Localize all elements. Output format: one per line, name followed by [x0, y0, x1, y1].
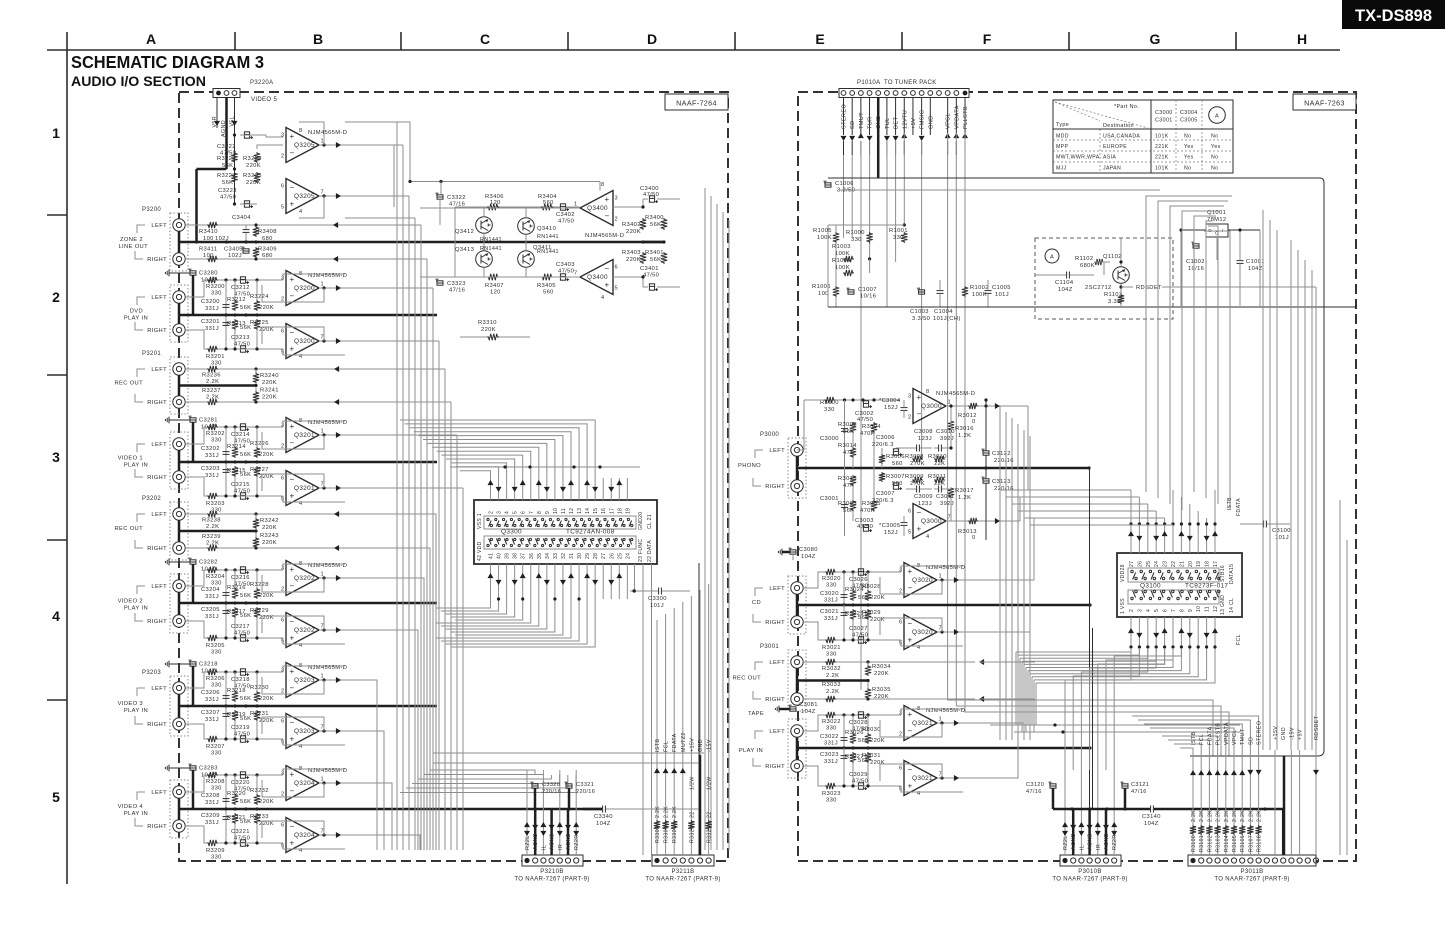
resistor R3243 [255, 533, 257, 537]
svg-text:R3106: R3106 [1240, 835, 1246, 852]
svg-text:56K: 56K [240, 696, 251, 702]
svg-text:Q3205: Q3205 [294, 142, 315, 149]
capacitor C3221 [240, 840, 245, 846]
svg-text:R3022: R3022 [822, 719, 841, 725]
svg-text:2.2K: 2.2K [206, 524, 219, 530]
svg-text:6: 6 [899, 620, 902, 626]
capacitor C3201 [225, 315, 227, 349]
svg-text:4: 4 [505, 511, 511, 514]
resistor R3002 [850, 422, 856, 433]
svg-text:13 GND: 13 GND [1220, 595, 1226, 615]
op-amp Q32032 [286, 714, 319, 749]
IC Q3100 TC9273F-017 body [1117, 553, 1242, 617]
svg-text:R3004: R3004 [862, 424, 881, 430]
svg-text:331J: 331J [824, 616, 838, 622]
wire feedback 2 [262, 821, 324, 838]
svg-text:No: No [1184, 134, 1191, 140]
svg-text:6: 6 [1163, 609, 1169, 612]
wire ground bus [179, 808, 602, 811]
svg-text:TUL: TUL [885, 117, 891, 129]
svg-text:C3404: C3404 [232, 215, 251, 221]
svg-text:−: − [908, 727, 913, 736]
wire rec [803, 661, 975, 663]
svg-text:2: 2 [615, 217, 618, 223]
svg-text:17: 17 [609, 508, 615, 514]
wire rec ground [179, 384, 256, 387]
svg-text:2.2K: 2.2K [655, 806, 661, 818]
svg-text:R3014: R3014 [838, 443, 857, 449]
svg-text:47/50: 47/50 [234, 489, 250, 495]
svg-text:RIGHT: RIGHT [147, 722, 167, 728]
op-amp Q32002 [286, 324, 319, 359]
capacitor C3217 [240, 635, 245, 641]
svg-text:LEFT: LEFT [151, 223, 167, 229]
svg-text:Yes: Yes [1211, 144, 1221, 150]
wire out [319, 195, 345, 197]
op-amp Q3000a [913, 389, 946, 424]
svg-text:6: 6 [281, 823, 284, 829]
svg-text:1/2W: 1/2W [689, 776, 695, 790]
resistor R3206 [207, 669, 218, 675]
wire gnd heavy [1283, 756, 1286, 855]
svg-text:78M12: 78M12 [1207, 217, 1226, 223]
wire cd R [803, 766, 825, 786]
wire rec ground [179, 530, 256, 533]
connector jack group [170, 432, 188, 489]
svg-text:10: 10 [553, 508, 559, 514]
wire output 1 [319, 782, 345, 784]
wire ground bus [179, 602, 437, 605]
wire feedback 2 [262, 717, 324, 734]
svg-text:+: + [908, 710, 913, 719]
svg-text:25: 25 [617, 553, 623, 559]
wire q3400 bot [613, 277, 643, 287]
wire fanout P3210B [430, 770, 535, 775]
svg-text:IL: IL [1079, 845, 1085, 850]
resistor R3226 [256, 427, 258, 447]
svg-text:+: + [290, 735, 295, 744]
capacitor C3207 [225, 706, 227, 739]
svg-text:RIGHT: RIGHT [765, 484, 785, 490]
svg-text:PLAY IN: PLAY IN [124, 708, 148, 714]
resistor R3004 [871, 422, 877, 433]
svg-text:22 DATA: 22 DATA [647, 540, 653, 562]
svg-text:FDATA: FDATA [1207, 726, 1213, 745]
resistor R3209 [207, 840, 218, 846]
svg-text:H: H [1297, 31, 1307, 47]
resistor R3021 [825, 637, 836, 643]
resistor R3224 [256, 280, 258, 300]
svg-text:R1005: R1005 [813, 228, 832, 234]
svg-text:C3300: C3300 [648, 596, 667, 602]
svg-text:220K: 220K [870, 738, 885, 744]
svg-text:+: + [290, 132, 295, 141]
svg-text:REC OUT: REC OUT [114, 526, 143, 532]
svg-text:330: 330 [211, 438, 222, 444]
resistor R3232 [256, 775, 258, 794]
op-amp Q3205b [286, 179, 319, 214]
capacitor C3340 [602, 806, 604, 813]
svg-text:330: 330 [851, 237, 862, 243]
svg-text:TO TUNER PACK: TO TUNER PACK [884, 80, 937, 86]
svg-text:28: 28 [593, 553, 599, 559]
wire right rails 2 [1339, 500, 1341, 855]
capacitor C3028 [858, 712, 863, 718]
resistor R3034 [867, 662, 869, 665]
svg-text:No: No [1211, 134, 1218, 140]
wire row bot [455, 276, 487, 278]
svg-text:Q3100: Q3100 [1140, 583, 1161, 590]
svg-text:220/16: 220/16 [542, 789, 561, 795]
svg-text:22: 22 [689, 812, 695, 818]
svg-text:470K: 470K [860, 431, 875, 437]
wire ground bus [179, 705, 437, 708]
svg-text:R3402: R3402 [622, 222, 641, 228]
connector TAPE [788, 719, 806, 778]
svg-text:220K: 220K [874, 694, 889, 700]
svg-text:C3121: C3121 [1131, 782, 1149, 788]
wire ground bus [179, 461, 437, 464]
svg-text:+: + [290, 275, 295, 284]
svg-text:220/6.3: 220/6.3 [872, 498, 894, 504]
wire zone R [185, 258, 420, 260]
svg-text:22K: 22K [934, 461, 945, 467]
svg-text:C3008: C3008 [914, 429, 933, 435]
resistor R3212 [234, 280, 236, 300]
capacitor C3300 [658, 588, 660, 595]
svg-text:TO NAAR-7267 (PART-9): TO NAAR-7267 (PART-9) [1052, 877, 1127, 883]
svg-text:−: − [290, 617, 295, 626]
svg-text:104Z: 104Z [1058, 287, 1073, 293]
svg-text:TUR: TUR [868, 116, 874, 129]
svg-text:C1003: C1003 [910, 309, 929, 315]
svg-text:392J: 392J [940, 501, 954, 507]
svg-text:R3222: R3222 [217, 156, 236, 162]
wire fb [880, 764, 942, 781]
svg-text:+: + [917, 525, 922, 534]
svg-text:31: 31 [569, 553, 575, 559]
wire fb top [283, 274, 345, 280]
wire q3205 to q3400 [345, 122, 410, 182]
wire reg rail [1259, 230, 1261, 307]
svg-text:2.2K: 2.2K [206, 395, 219, 401]
svg-text:R3224: R3224 [250, 294, 269, 300]
svg-text:VIDEO 5: VIDEO 5 [251, 97, 277, 103]
svg-text:RIGHT: RIGHT [147, 824, 167, 830]
label box NAAF-7263 [1293, 94, 1356, 110]
model label box TX-DS898 [1342, 0, 1445, 29]
svg-text:C3100: C3100 [1272, 528, 1291, 534]
svg-text:330: 330 [211, 855, 222, 861]
svg-text:+: + [290, 492, 295, 501]
svg-text:1.2K: 1.2K [958, 495, 971, 501]
svg-text:104Z: 104Z [1144, 821, 1159, 827]
wire fb top [283, 421, 345, 427]
svg-text:13: 13 [577, 508, 583, 514]
wire [835, 225, 837, 232]
wire [835, 399, 900, 401]
wire corner bend [1190, 750, 1324, 756]
svg-text:560: 560 [892, 461, 903, 467]
svg-text:C3323: C3323 [447, 281, 466, 287]
svg-text:C3216: C3216 [231, 575, 250, 581]
svg-text:24: 24 [625, 553, 631, 559]
svg-text:2.2K: 2.2K [1207, 810, 1213, 822]
svg-text:TC9273F-017: TC9273F-017 [1185, 583, 1228, 590]
capacitor C1005 [985, 290, 992, 292]
svg-text:10/16: 10/16 [860, 294, 876, 300]
svg-text:4: 4 [601, 295, 604, 301]
wire ground bus [797, 747, 1090, 750]
svg-text:2: 2 [281, 154, 284, 160]
svg-text:Q3201: Q3201 [294, 485, 315, 492]
arrow [334, 545, 339, 551]
wire right input [185, 330, 207, 349]
svg-text:REC OUT: REC OUT [732, 676, 761, 682]
svg-text:R3108: R3108 [1257, 835, 1263, 852]
svg-text:331J: 331J [205, 594, 219, 600]
wire ground stub [192, 422, 195, 462]
svg-text:C3340: C3340 [594, 814, 613, 820]
node A [1045, 249, 1059, 263]
capacitor C3322 [437, 195, 443, 199]
wire cd out hooks [963, 518, 1034, 580]
junction [224, 670, 227, 673]
svg-text:331J: 331J [824, 759, 838, 765]
svg-text:PLAY IN: PLAY IN [124, 606, 148, 612]
svg-text:2: 2 [52, 289, 60, 305]
junction [233, 704, 236, 707]
svg-text:5: 5 [1154, 609, 1160, 612]
svg-text:P3211B: P3211B [671, 869, 694, 875]
svg-text:C3207: C3207 [201, 710, 220, 716]
svg-text:P3010B: P3010B [1078, 869, 1101, 875]
resistor R3237 [207, 399, 218, 405]
svg-text:C3005: C3005 [1180, 118, 1198, 124]
svg-text:220K: 220K [262, 540, 277, 546]
svg-text:17: 17 [1213, 561, 1219, 567]
svg-text:104Z: 104Z [1248, 266, 1263, 272]
row tick [47, 539, 67, 541]
capacitor C3222 [244, 132, 249, 138]
svg-text:C3320: C3320 [542, 782, 560, 788]
svg-text:560: 560 [892, 481, 903, 487]
svg-text:330: 330 [211, 786, 222, 792]
svg-text:19: 19 [1196, 561, 1202, 567]
resistor R3221 [232, 813, 238, 824]
svg-text:P3201: P3201 [142, 351, 161, 357]
svg-text:120: 120 [490, 200, 501, 206]
svg-text:+15V: +15V [689, 738, 695, 752]
svg-text:101K: 101K [1155, 165, 1169, 171]
svg-text:−: − [290, 822, 295, 831]
svg-text:C3028: C3028 [849, 720, 868, 726]
svg-text:REC OUT: REC OUT [114, 381, 143, 387]
capacitor C1006 [825, 183, 831, 187]
svg-text:Q3400: Q3400 [587, 274, 608, 281]
svg-text:6: 6 [281, 476, 284, 482]
svg-text:220/16: 220/16 [994, 458, 1014, 464]
capacitor C3022 [843, 715, 845, 748]
resistor R3200 [207, 277, 218, 283]
op-amp Q30201 [904, 563, 937, 598]
svg-text:R3409: R3409 [258, 247, 277, 253]
svg-text:Q3204: Q3204 [294, 780, 315, 787]
svg-text:220K: 220K [481, 327, 496, 333]
wire AGND [225, 97, 228, 169]
wire rec mid ground [797, 679, 868, 682]
svg-text:680K: 680K [1080, 263, 1095, 269]
svg-text:JAPAN: JAPAN [1103, 165, 1121, 171]
wires Q3300 bottom pins [490, 564, 492, 599]
svg-text:PLAY IN: PLAY IN [124, 463, 148, 469]
connector P3220A [213, 89, 240, 98]
capacitor C3321 [566, 784, 572, 788]
wire rb h1 [990, 724, 1240, 726]
svg-text:35: 35 [537, 553, 543, 559]
svg-text:23 FUNC: 23 FUNC [638, 539, 644, 562]
svg-text:AGND: AGND [1071, 833, 1077, 850]
svg-text:MPP: MPP [1056, 144, 1068, 150]
wire rec right [185, 401, 207, 403]
connector jack group [170, 574, 188, 633]
resistor R3025 [850, 609, 856, 620]
svg-text:P3210B: P3210B [540, 869, 563, 875]
svg-text:7: 7 [948, 515, 951, 521]
svg-text:220/16: 220/16 [994, 486, 1014, 492]
svg-text:+: + [908, 636, 913, 645]
svg-text:C1002: C1002 [1186, 259, 1205, 265]
svg-text:100: 100 [203, 253, 214, 259]
svg-text:R3209: R3209 [206, 848, 225, 854]
svg-text:RIGHT: RIGHT [765, 697, 785, 703]
resistor R3402 [640, 218, 646, 230]
capacitor C3122 [983, 451, 989, 455]
svg-text:R3030: R3030 [862, 727, 881, 733]
wire ground stub [192, 770, 195, 809]
row tick [47, 374, 67, 376]
connector P3010B [1060, 855, 1121, 866]
column tick [567, 32, 569, 50]
svg-text:331J: 331J [205, 306, 219, 312]
resistor R3014 [850, 447, 856, 458]
svg-text:R3104: R3104 [1224, 835, 1230, 852]
svg-text:RIGHT: RIGHT [147, 400, 167, 406]
svg-text:TC9274AN-008: TC9274AN-008 [566, 529, 615, 536]
svg-text:FCL: FCL [1236, 634, 1242, 645]
svg-text:3: 3 [908, 394, 911, 400]
op-amp Q32042 [286, 818, 319, 853]
wire trans [454, 207, 456, 277]
svg-text:2.2K: 2.2K [1232, 810, 1238, 822]
svg-text:R1004: R1004 [832, 258, 851, 264]
op-amp Q32031 [286, 663, 319, 698]
svg-text:331J: 331J [205, 473, 219, 479]
svg-text:R3242: R3242 [260, 518, 279, 524]
svg-text:DET: DET [894, 117, 900, 129]
svg-text:47/16: 47/16 [1131, 789, 1147, 795]
svg-text:101K: 101K [1155, 134, 1169, 140]
wire ground bus [179, 314, 437, 317]
svg-text:C3220: C3220 [231, 780, 250, 786]
capacitor C3323 [437, 281, 443, 285]
svg-text:220K: 220K [259, 718, 274, 724]
wires Q3100 top pins [1130, 490, 1132, 553]
wire rds [1094, 262, 1104, 275]
svg-text:C3214: C3214 [231, 432, 250, 438]
svg-text:19: 19 [625, 508, 631, 514]
svg-text:C3001: C3001 [820, 496, 839, 502]
svg-text:220K: 220K [262, 525, 277, 531]
svg-text:152J: 152J [884, 405, 898, 411]
svg-text:PLAY IN: PLAY IN [739, 748, 763, 754]
svg-text:2.2K: 2.2K [1248, 810, 1254, 822]
svg-text:4: 4 [52, 608, 60, 624]
op-amp Q32041 [286, 766, 319, 801]
resistor R3223 [231, 172, 237, 183]
svg-text:CD: CD [752, 600, 761, 606]
svg-text:+: + [290, 667, 295, 676]
svg-text:220K: 220K [262, 380, 277, 386]
svg-text:VPCL: VPCL [946, 113, 952, 129]
svg-text:Yes: Yes [1184, 155, 1194, 161]
svg-text:C3026: C3026 [849, 577, 868, 583]
svg-text:C3205: C3205 [201, 607, 220, 613]
wire bus tuner [843, 155, 845, 238]
resistor R3026 [852, 715, 854, 733]
capacitor C3283 [168, 765, 170, 772]
svg-text:331J: 331J [824, 741, 838, 747]
svg-text:TX-DS898: TX-DS898 [1355, 7, 1432, 25]
svg-text:RIGHT: RIGHT [147, 619, 167, 625]
wire V5R [216, 97, 218, 128]
resistor R3236 [207, 366, 218, 372]
svg-text:8: 8 [601, 182, 604, 188]
svg-text:Type: Type [1056, 122, 1069, 128]
svg-text:AGND: AGND [1088, 833, 1094, 850]
wire fanout P3010B [1065, 648, 1131, 770]
svg-text:Q3000: Q3000 [921, 518, 942, 525]
resistor R3227 [254, 466, 260, 477]
svg-text:R3033: R3033 [822, 682, 841, 688]
wire out [937, 579, 963, 581]
svg-text:C3004: C3004 [1180, 110, 1198, 116]
svg-text:Q3201: Q3201 [294, 432, 315, 439]
connector jack group [170, 285, 188, 342]
resistor R3216 [234, 570, 236, 588]
svg-text:C3010: C3010 [936, 429, 955, 435]
svg-text:3.3/50: 3.3/50 [912, 316, 930, 322]
svg-text:P3001: P3001 [760, 644, 779, 650]
resistor R3222 [231, 152, 237, 163]
svg-text:41: 41 [489, 553, 495, 559]
svg-text:No: No [1211, 165, 1218, 171]
svg-text:C3020: C3020 [820, 591, 839, 597]
svg-text:R3007: R3007 [886, 474, 905, 480]
op-amp Q30211 [904, 706, 937, 741]
svg-text:LEFT: LEFT [151, 442, 167, 448]
svg-text:220K: 220K [262, 395, 277, 401]
resistor R3230 [256, 672, 258, 691]
resistor R3029 [865, 609, 871, 620]
svg-text:−: − [917, 410, 922, 419]
svg-text:22K: 22K [934, 481, 945, 487]
wires P3010B signals [1064, 809, 1066, 855]
svg-text:8: 8 [926, 389, 929, 395]
svg-text:+: + [605, 281, 610, 290]
svg-text:R3011: R3011 [928, 474, 946, 480]
svg-text:MJJ: MJJ [1056, 165, 1067, 171]
